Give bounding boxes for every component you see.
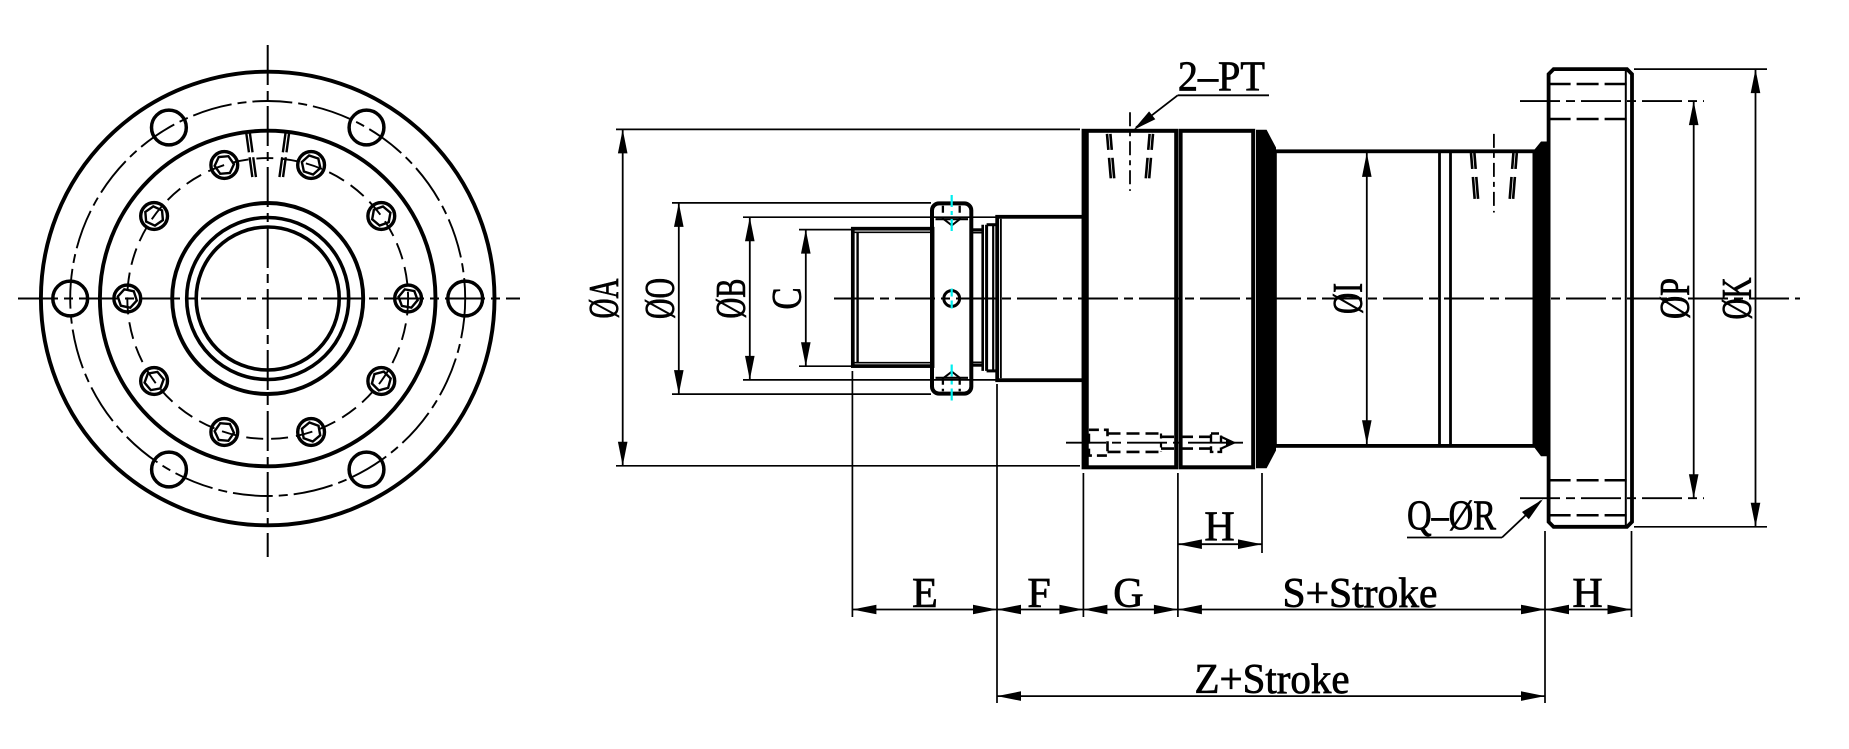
bottom dim row extension lines — [851, 371, 853, 617]
dim phi-B — [749, 217, 751, 380]
rod neck section — [971, 228, 982, 231]
mounting hole 4 — [53, 281, 88, 316]
svg-text:S+Stroke: S+Stroke — [1283, 571, 1438, 617]
collar bottom ear face line — [936, 377, 969, 379]
port on distributor block: centerline — [1129, 112, 1131, 191]
mounting hole 2 — [349, 452, 384, 487]
thread minor diameter lines — [854, 231, 933, 233]
center bore middle circle — [187, 218, 349, 380]
hex-bolt pitch circle (dashed) — [127, 158, 408, 439]
svg-text:H: H — [1204, 504, 1234, 550]
svg-text:C: C — [765, 288, 811, 310]
collar hole centerline (cyan) middle — [951, 289, 953, 309]
2-PT leader line — [1178, 94, 1269, 96]
mounting hole 5 — [152, 110, 187, 145]
hex socket bolt 2 — [368, 368, 395, 395]
hex socket bolt 4 — [211, 419, 238, 446]
svg-text:ØI: ØI — [1326, 283, 1372, 314]
distributor block thick left face — [1083, 129, 1089, 469]
hex socket bolt 3 — [298, 419, 325, 446]
svg-text:G: G — [1113, 571, 1143, 617]
hex socket bolt 6 — [114, 285, 141, 312]
collar bottom screw hole (hidden) — [942, 378, 944, 391]
svg-text:H: H — [1572, 571, 1602, 617]
flange bolt circle bottom (chain) — [1520, 497, 1704, 499]
svg-text:Q–ØR: Q–ØR — [1407, 494, 1496, 540]
svg-text:F: F — [1027, 571, 1050, 617]
center bore inner circle — [196, 227, 339, 370]
bolt-hole pitch circle (chain) — [70, 101, 465, 496]
svg-text:ØO: ØO — [638, 278, 684, 319]
end flange — [1549, 69, 1632, 527]
flange bolt circle top (chain) — [1520, 100, 1704, 102]
cylinder head block — [1181, 131, 1254, 468]
svg-text:Z+Stroke: Z+Stroke — [1195, 657, 1350, 703]
hex socket bolt 8 — [211, 152, 238, 179]
dim phi-P — [1693, 101, 1695, 498]
svg-text:ØP: ØP — [1653, 278, 1699, 319]
dim G — [1083, 609, 1178, 611]
dim H (flange) — [1545, 609, 1632, 611]
dim S+Stroke — [1178, 609, 1545, 611]
svg-text:ØA: ØA — [582, 278, 628, 318]
piston rod thread section — [853, 229, 933, 366]
tie-rod screw head (hidden) — [1089, 430, 1108, 456]
svg-text:ØB: ØB — [709, 279, 755, 319]
svg-text:E: E — [912, 571, 938, 617]
dim phi-I — [1366, 153, 1368, 444]
dim phi-A — [622, 129, 624, 465]
dim phi-A extension lines — [616, 128, 1080, 130]
front view port projection marks — [246, 133, 252, 178]
port on cylinder tube: taper lines — [1471, 153, 1475, 201]
mounting hole 3 — [152, 452, 187, 487]
dim phi-K extension lines — [1634, 68, 1767, 70]
collar top screw hole (hidden) — [942, 206, 944, 219]
tie-rod screw centerline (chain) — [1066, 442, 1248, 444]
distributor housing block — [1084, 131, 1177, 468]
tie-rod nut (hidden) — [1211, 434, 1221, 452]
dim H (head block) — [1178, 543, 1262, 545]
cylinder tube weld seam — [1438, 151, 1441, 446]
collar top countersink V — [944, 219, 960, 225]
collar center hole — [944, 291, 960, 307]
front view: vertical centerline — [267, 45, 269, 557]
flange outer circle — [41, 72, 495, 526]
dim phi-B extension lines — [743, 216, 996, 218]
neck step verticals — [981, 225, 984, 371]
Q-phi-R leader line — [1407, 537, 1502, 539]
collar hole centerline (cyan) bottom — [951, 365, 953, 403]
hex socket bolt 5 — [141, 368, 168, 395]
dim phi-K — [1755, 69, 1757, 527]
dim Z+Stroke — [997, 695, 1545, 697]
mounting hole 6 — [349, 110, 384, 145]
rod body end chamfer vertical — [1000, 219, 1002, 378]
tie-rod tip — [1221, 437, 1234, 449]
svg-text:2–PT: 2–PT — [1178, 55, 1265, 101]
mounting hole 1 — [448, 281, 483, 316]
thread end inner vertical — [856, 232, 858, 362]
dim C extension lines — [799, 229, 852, 231]
center bore outer circle — [172, 203, 363, 394]
hex socket bolt 7 — [141, 203, 168, 230]
dim E — [852, 609, 997, 611]
flange bolt hole bottom (hidden) — [1549, 479, 1632, 482]
rod collar (rotary union body) — [932, 203, 971, 393]
svg-text:ØK: ØK — [1715, 278, 1761, 320]
hex socket bolt 1 — [395, 285, 422, 312]
hex socket bolt 10 — [368, 203, 395, 230]
retainer ring (solid) — [1257, 131, 1275, 468]
rod-end retainer ring (solid) — [1534, 143, 1547, 456]
dim F — [997, 609, 1083, 611]
hex socket bolt 9 — [298, 152, 325, 179]
flange inner face line — [1625, 69, 1627, 527]
side view main centerline — [834, 298, 1800, 300]
collar bottom countersink V — [944, 372, 960, 378]
dim C — [805, 230, 807, 367]
flange bolt hole top (hidden) — [1549, 83, 1632, 86]
cylinder tube — [1275, 151, 1535, 446]
front view: horizontal centerline — [18, 298, 520, 300]
collar top ear face line — [936, 218, 969, 220]
port on distributor block: taper lines — [1107, 134, 1111, 178]
tie-rod thread (hidden) — [1161, 435, 1211, 438]
port on cylinder tube: centerline — [1493, 134, 1495, 213]
dim phi-O extension lines — [672, 202, 931, 204]
step section — [987, 223, 998, 226]
tie-rod shank (hidden) — [1108, 432, 1162, 435]
rod body cylinder — [997, 217, 1083, 380]
flange inner circle — [100, 131, 436, 467]
collar hole centerline (cyan) top — [951, 195, 953, 233]
dim phi-O — [678, 203, 680, 394]
